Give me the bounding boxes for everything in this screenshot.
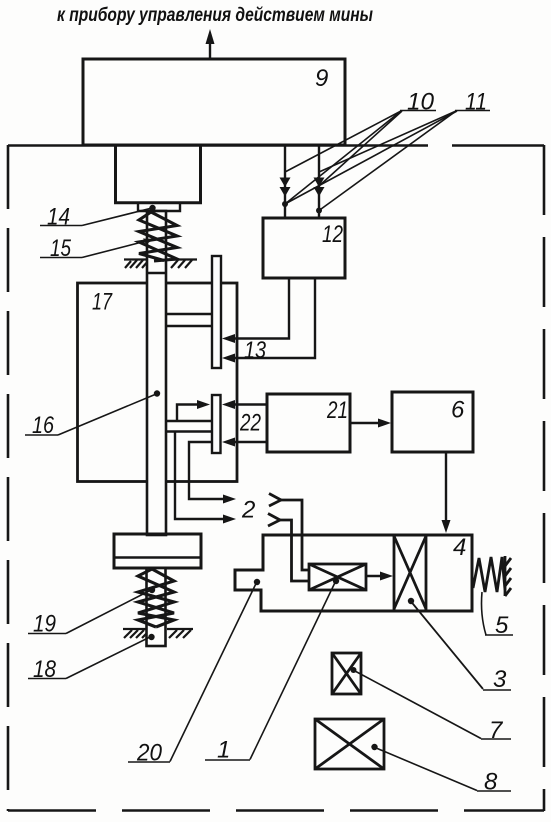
- outer dashed border right: [543, 145, 546, 811]
- wire v1 border to box12: [284, 146, 286, 218]
- box 12: [263, 218, 345, 278]
- svg-text:12: 12: [322, 221, 343, 248]
- chevron pipe A: [268, 494, 309, 582]
- box 21: [267, 394, 350, 452]
- svg-text:4: 4: [453, 534, 466, 561]
- box 17: [78, 283, 238, 482]
- wires box12 to valve 13 with arrows: [228, 278, 289, 339]
- piston: [114, 534, 201, 568]
- svg-text:21: 21: [326, 397, 348, 424]
- arrow box21 to box6: [350, 422, 385, 424]
- svg-text:17: 17: [92, 289, 113, 316]
- svg-text:7: 7: [489, 717, 504, 744]
- dot 14: [149, 205, 155, 211]
- ground lower: [123, 629, 193, 638]
- box 6: [392, 392, 473, 452]
- svg-text:13: 13: [244, 337, 267, 364]
- X-box 1: [309, 564, 366, 590]
- box 4 outline with notch: [235, 535, 472, 611]
- arrows box21 to valve 22: [228, 403, 267, 405]
- svg-text:6: 6: [451, 397, 465, 424]
- outer dashed border left: [7, 145, 10, 811]
- wire v2 border to box12: [318, 146, 320, 218]
- rod lower end 18: [147, 568, 166, 646]
- arrow X1 to X3: [366, 575, 387, 577]
- arrow up to control device: [209, 40, 211, 59]
- dot 16 on rod: [154, 390, 160, 396]
- spring 5: [473, 556, 511, 596]
- valve bar 22: [212, 395, 221, 453]
- pipe 2 lower: [175, 432, 228, 520]
- fork arm 13: [166, 313, 212, 315]
- X-box 8: [315, 719, 384, 769]
- spring seat 14: [138, 203, 180, 211]
- pointer lines 10: [285, 111, 457, 211]
- rod 16 (white fill over box17): [147, 211, 166, 535]
- ground upper: [124, 260, 197, 269]
- arrow box6 down to box4: [445, 452, 447, 527]
- X-box 7: [332, 653, 361, 694]
- pipe U below valve 22: [189, 442, 228, 499]
- svg-text:9: 9: [315, 65, 328, 92]
- svg-text:10: 10: [407, 89, 435, 116]
- svg-text:3: 3: [493, 666, 507, 693]
- chevron pipe B: [268, 514, 280, 527]
- valve bar 13: [212, 256, 221, 368]
- svg-text:14: 14: [47, 204, 70, 231]
- svg-text:22: 22: [239, 410, 261, 437]
- rod crossbar: [147, 272, 166, 274]
- X-box 3: [394, 535, 426, 610]
- outer dashed border bottom: [8, 809, 544, 812]
- spring 15: [139, 212, 177, 261]
- inlet stub to valve 22: [177, 405, 199, 422]
- outer dashed border top: [8, 145, 544, 811]
- pointer lines 11: [319, 111, 456, 172]
- svg-text:11: 11: [465, 89, 487, 116]
- solenoid box on border: [116, 146, 201, 203]
- box 9: [83, 59, 345, 145]
- spring 19: [138, 569, 174, 627]
- svg-text:к прибору управления действием: к прибору управления действием мины: [57, 5, 373, 26]
- fork arm 22: [166, 420, 212, 422]
- svg-text:2: 2: [241, 497, 255, 524]
